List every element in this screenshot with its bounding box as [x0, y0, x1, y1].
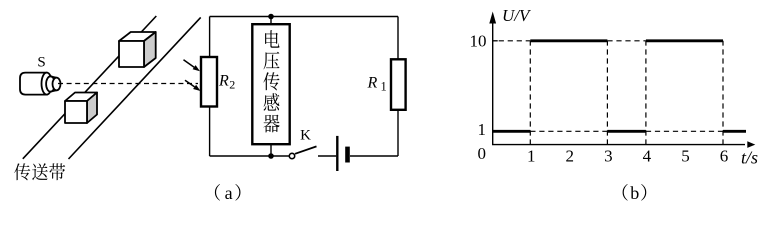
signal U=10, t 4..6: [646, 39, 723, 42]
voltage sensor box: [252, 24, 289, 144]
light arrow 2 into R2: [185, 80, 195, 87]
dashed horizontal at U=1 (t=1 to t=3): [530, 130, 607, 132]
wire: right branch lower: [397, 110, 399, 156]
wire: voltage sensor bottom lead: [270, 144, 272, 156]
node: bottom junction dot: [268, 153, 274, 159]
wire: conveyor belt right edge line: [69, 17, 201, 159]
signal U=1, t 3..4: [607, 130, 646, 133]
resistor R1 body: [391, 59, 406, 110]
wire: left branch upper: [209, 17, 211, 58]
svg-text:4: 4: [643, 147, 652, 166]
wire: voltage sensor top lead: [270, 17, 272, 25]
dashed vertical at t=1: [529, 41, 531, 145]
wire: circuit top: [210, 16, 398, 18]
svg-text:5: 5: [681, 147, 690, 166]
dashed horizontal at U=1 (t=4 to t=6): [646, 130, 723, 132]
y axis: [492, 16, 494, 145]
svg-text:R1: R1: [367, 75, 387, 94]
svg-text:a: a: [225, 183, 233, 203]
wire: conveyor belt left edge line: [23, 16, 157, 159]
svg-text:3: 3: [604, 147, 613, 166]
svg-text:U/V: U/V: [502, 6, 532, 25]
switch K: terminal circle: [289, 153, 294, 158]
wire: switch to battery: [318, 155, 336, 157]
wire: battery to right branch: [350, 155, 398, 157]
svg-text:6: 6: [720, 147, 729, 166]
resistor R2 (photoresistor) body: [201, 57, 217, 107]
dashed horizontal at U=10 (t=3 to t=4): [607, 40, 646, 42]
svg-text:K: K: [300, 128, 311, 144]
x axis: [492, 144, 745, 146]
dashed vertical at t=6: [722, 41, 724, 145]
dashed light beam from S: [58, 83, 198, 85]
svg-text:R2: R2: [218, 73, 235, 92]
dashed vertical at t=4: [645, 41, 647, 145]
svg-text:1: 1: [478, 120, 487, 139]
sensor S (photoelectric emitter): [20, 73, 61, 95]
light arrow 1 into R2: [184, 60, 195, 67]
label (b): [623, 184, 628, 201]
box: upper carton on belt: [119, 32, 156, 67]
battery: short thick plate (-): [345, 147, 350, 163]
dashed vertical at t=3: [606, 41, 608, 145]
signal U=1, t 0..1: [493, 130, 531, 133]
label 电压传感器 (voltage sensor), vertical: [263, 30, 279, 132]
wire: bottom left (to switch): [210, 155, 290, 157]
signal U=10, t 1..3: [530, 39, 607, 42]
signal U=1, t 6..end: [723, 130, 746, 133]
battery: long plate (+): [336, 136, 338, 171]
svg-text:1: 1: [527, 147, 536, 166]
svg-text:t/s: t/s: [741, 147, 758, 167]
dashed horizontal at U=10 (axis to t=1): [499, 40, 531, 42]
svg-text:S: S: [37, 55, 45, 71]
label (a): [215, 184, 220, 201]
wire: right branch upper: [397, 17, 399, 60]
label 传送带 (conveyor belt): [14, 163, 65, 180]
svg-text:0: 0: [478, 144, 487, 163]
wire: left branch lower: [209, 107, 211, 157]
switch K: blade: [295, 146, 317, 153]
svg-text:2: 2: [566, 147, 575, 166]
svg-text:10: 10: [470, 32, 487, 51]
node: top junction dot: [268, 14, 274, 20]
svg-text:b: b: [630, 183, 639, 203]
box: lower carton on belt: [65, 93, 97, 124]
